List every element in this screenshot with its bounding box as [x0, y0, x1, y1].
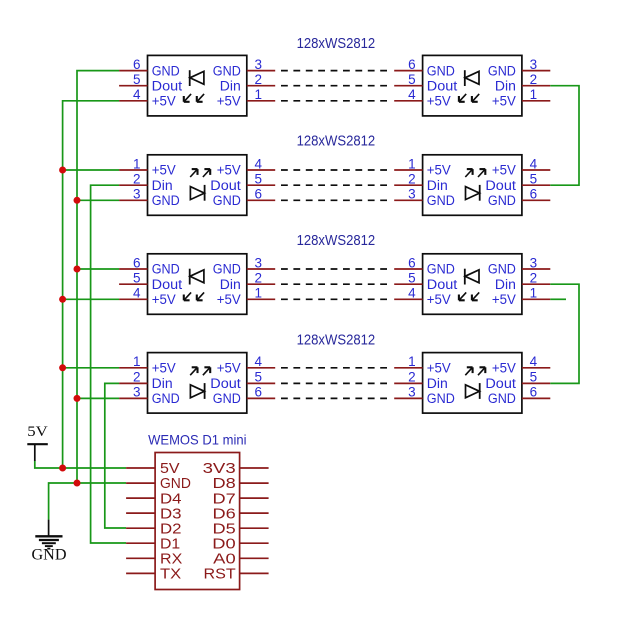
wire U2 Din to U4 Dout loop: [550, 86, 579, 186]
U5 pin 6 (GND) left: [119, 255, 180, 276]
svg-text:3V3: 3V3: [203, 461, 236, 477]
U7 pin 1 (+5V) left: [119, 354, 176, 375]
svg-text:RST: RST: [204, 567, 236, 583]
dashed wire row2 line2: [281, 184, 393, 186]
svg-text:Din: Din: [427, 376, 448, 391]
U9 pin D1 left: [126, 537, 180, 553]
svg-text:1: 1: [133, 354, 141, 369]
U9 pin RX left: [126, 552, 183, 568]
svg-text:GND: GND: [213, 391, 241, 406]
svg-text:5: 5: [530, 172, 538, 187]
svg-text:5V: 5V: [160, 461, 180, 477]
svg-text:5: 5: [255, 370, 263, 385]
U9 pin D2 left: [126, 521, 181, 537]
U7 pin 4 (+5V) right: [217, 354, 275, 375]
junction +5V bus / U3 pin1: [59, 167, 66, 174]
LED module U1 body (128xWS2812): [148, 55, 247, 116]
svg-text:GND: GND: [427, 193, 455, 208]
svg-text:2: 2: [408, 172, 416, 187]
svg-text:4: 4: [133, 286, 141, 301]
svg-text:GND: GND: [32, 547, 67, 564]
U3 pin 1 (+5V) left: [119, 156, 176, 177]
junction +5V bus / U7 pin1: [59, 364, 66, 371]
ground symbol GND: [32, 520, 67, 564]
svg-text:+5V: +5V: [427, 361, 451, 376]
U1 pin 2 (Din) right: [220, 72, 275, 93]
U2 LED symbol: [459, 70, 479, 102]
junction GND bus / U3 pin3: [74, 197, 81, 204]
U9 pin D0 right: [212, 537, 268, 553]
U8 pin 6 (GND) right: [488, 385, 550, 406]
svg-text:RX: RX: [160, 552, 183, 568]
U4 pin 2 (Din) left: [394, 172, 448, 193]
svg-text:Dout: Dout: [152, 277, 183, 292]
junction +5V bus / WEMOS 5V: [59, 465, 66, 472]
svg-text:3: 3: [255, 57, 263, 72]
U6 pin 1 (+5V) right: [492, 286, 550, 307]
U7 LED symbol: [190, 367, 210, 399]
U6 pin 4 (+5V) left: [394, 286, 451, 307]
U2 pin 3 (GND) right: [488, 57, 550, 78]
wire D1 net (WEMOS D1 to U3 Din): [91, 185, 127, 543]
U4 pin 4 (+5V) right: [492, 156, 550, 177]
svg-text:2: 2: [255, 72, 263, 87]
svg-text:A0: A0: [213, 552, 236, 568]
U4 pin 3 (GND) left: [394, 187, 455, 208]
svg-text:3: 3: [408, 187, 416, 202]
WEMOS D1 mini U9 body: [155, 453, 240, 590]
svg-text:Din: Din: [427, 178, 448, 193]
svg-text:Dout: Dout: [427, 277, 458, 292]
svg-text:3: 3: [530, 57, 538, 72]
svg-text:6: 6: [133, 57, 141, 72]
U7 pin 3 (GND) left: [119, 385, 180, 406]
svg-text:GND: GND: [488, 63, 516, 78]
svg-text:GND: GND: [488, 391, 516, 406]
U5 pin 1 (+5V) right: [217, 286, 275, 307]
svg-text:5: 5: [408, 271, 416, 286]
U9 pin D3 left: [126, 506, 181, 522]
U1 LED symbol: [184, 70, 204, 102]
dashed wire row4 line1: [281, 367, 393, 369]
svg-text:Dout: Dout: [152, 78, 183, 93]
U3 LED symbol: [190, 169, 210, 201]
svg-text:GND: GND: [160, 476, 191, 492]
U3 pin 3 (GND) left: [119, 187, 180, 208]
U8 pin 5 (Dout) right: [485, 370, 550, 391]
junction GND bus / U5 pin6: [74, 266, 81, 273]
power flag 5V: [27, 424, 48, 461]
svg-text:D3: D3: [160, 506, 182, 522]
svg-text:GND: GND: [488, 193, 516, 208]
dashed wire row3 line3: [281, 298, 393, 300]
svg-text:Dout: Dout: [427, 78, 458, 93]
svg-text:Dout: Dout: [485, 178, 516, 193]
U7 pin 2 (Din) left: [119, 370, 173, 391]
svg-text:4: 4: [408, 87, 416, 102]
U5 LED symbol: [184, 269, 204, 301]
svg-text:128xWS2812: 128xWS2812: [297, 333, 376, 349]
svg-text:6: 6: [530, 385, 538, 400]
dashed wire row3 line2: [281, 283, 393, 285]
LED module U4 body (128xWS2812): [423, 155, 522, 216]
dashed wire row3 line1: [281, 268, 393, 270]
svg-text:3: 3: [255, 255, 263, 270]
junction GND bus / WEMOS GND: [74, 480, 81, 487]
svg-text:D5: D5: [213, 521, 236, 537]
svg-text:1: 1: [530, 286, 538, 301]
svg-text:GND: GND: [213, 262, 241, 277]
U5 pin 3 (GND) right: [213, 255, 275, 276]
U7 pin 6 (GND) right: [213, 385, 275, 406]
svg-text:1: 1: [255, 286, 263, 301]
U2 pin 5 (Dout) left: [394, 72, 457, 93]
svg-text:4: 4: [255, 354, 263, 369]
U3 pin 6 (GND) right: [213, 187, 275, 208]
svg-text:+5V: +5V: [427, 163, 451, 178]
svg-text:D4: D4: [160, 491, 182, 507]
svg-text:5V: 5V: [27, 424, 48, 440]
junction +5V bus / U5 pin4: [59, 296, 66, 303]
svg-text:+5V: +5V: [152, 94, 176, 109]
U3 pin 5 (Dout) right: [210, 172, 275, 193]
svg-text:+5V: +5V: [492, 94, 516, 109]
dashed wire row1 line3: [281, 100, 393, 102]
svg-text:Din: Din: [495, 277, 516, 292]
U3 pin 4 (+5V) right: [217, 156, 275, 177]
svg-text:1: 1: [255, 87, 263, 102]
U9 pin D6 right: [213, 506, 269, 522]
dashed wire row4 line3: [281, 397, 393, 399]
svg-text:5: 5: [133, 271, 141, 286]
U1 pin 3 (GND) right: [213, 57, 275, 78]
wire GND bus vertical: [77, 71, 119, 483]
svg-text:Dout: Dout: [210, 376, 241, 391]
svg-text:Dout: Dout: [210, 178, 241, 193]
svg-text:+5V: +5V: [152, 163, 176, 178]
svg-text:5: 5: [255, 172, 263, 187]
svg-text:2: 2: [530, 271, 538, 286]
svg-text:+5V: +5V: [492, 361, 516, 376]
svg-text:3: 3: [530, 255, 538, 270]
svg-text:4: 4: [530, 156, 538, 171]
svg-text:5: 5: [530, 370, 538, 385]
U8 pin 2 (Din) left: [394, 370, 448, 391]
svg-text:2: 2: [530, 72, 538, 87]
svg-text:+5V: +5V: [492, 292, 516, 307]
svg-text:+5V: +5V: [427, 292, 451, 307]
U2 pin 2 (Din) right: [495, 72, 550, 93]
dashed wire row1 line1: [281, 70, 393, 72]
svg-text:4: 4: [133, 87, 141, 102]
LED module U3 body (128xWS2812): [148, 155, 247, 216]
svg-text:WEMOS D1 mini: WEMOS D1 mini: [148, 432, 246, 448]
svg-text:6: 6: [255, 385, 263, 400]
U8 LED symbol: [465, 367, 485, 399]
svg-text:+5V: +5V: [217, 94, 241, 109]
svg-text:GND: GND: [427, 391, 455, 406]
U4 LED symbol: [465, 169, 485, 201]
U4 pin 6 (GND) right: [488, 187, 550, 208]
svg-text:3: 3: [133, 385, 141, 400]
svg-text:2: 2: [255, 271, 263, 286]
wire U6 Din to U8 Dout loop: [550, 284, 579, 383]
U6 pin 5 (Dout) left: [394, 271, 457, 292]
svg-text:3: 3: [133, 187, 141, 202]
svg-text:1: 1: [408, 156, 416, 171]
svg-text:4: 4: [255, 156, 263, 171]
dashed wire row4 line2: [281, 382, 393, 384]
svg-text:1: 1: [133, 156, 141, 171]
U9 pin 5V left: [126, 461, 180, 477]
junction GND bus / U7 pin3: [74, 395, 81, 402]
LED module U5 body (128xWS2812): [148, 254, 247, 314]
wire stub U6 pin1 +5V: [550, 298, 566, 300]
U5 pin 5 (Dout) left: [119, 271, 182, 292]
U4 pin 5 (Dout) right: [485, 172, 550, 193]
svg-text:128xWS2812: 128xWS2812: [297, 233, 376, 249]
svg-text:4: 4: [530, 354, 538, 369]
U1 pin 1 (+5V) right: [217, 87, 275, 108]
U9 pin D7 right: [213, 491, 269, 507]
svg-text:+5V: +5V: [427, 94, 451, 109]
svg-text:GND: GND: [427, 262, 455, 277]
svg-text:Din: Din: [495, 78, 516, 93]
U2 pin 1 (+5V) right: [492, 87, 550, 108]
U5 pin 2 (Din) right: [220, 271, 275, 292]
U9 pin D8 right: [213, 476, 269, 492]
U9 pin D5 right: [213, 521, 269, 537]
U6 pin 6 (GND) left: [394, 255, 455, 276]
wire D2 net (WEMOS D2 to U7 Din): [105, 383, 126, 528]
U8 pin 1 (+5V) left: [394, 354, 451, 375]
svg-text:+5V: +5V: [217, 163, 241, 178]
svg-text:6: 6: [408, 255, 416, 270]
svg-text:+5V: +5V: [152, 292, 176, 307]
svg-text:GND: GND: [152, 193, 180, 208]
U2 pin 6 (GND) left: [394, 57, 455, 78]
svg-text:6: 6: [530, 187, 538, 202]
U9 pin TX left: [126, 567, 181, 583]
svg-text:2: 2: [133, 172, 141, 187]
svg-text:2: 2: [408, 370, 416, 385]
svg-text:Dout: Dout: [485, 376, 516, 391]
wire U5 pin6 GND tap: [77, 268, 119, 270]
svg-text:Din: Din: [152, 178, 173, 193]
svg-text:GND: GND: [213, 63, 241, 78]
svg-text:TX: TX: [160, 567, 182, 583]
U8 pin 3 (GND) left: [394, 385, 455, 406]
svg-text:Din: Din: [220, 78, 241, 93]
svg-text:+5V: +5V: [217, 361, 241, 376]
svg-text:5: 5: [133, 72, 141, 87]
U6 pin 2 (Din) right: [495, 271, 550, 292]
LED module U8 body (128xWS2812): [423, 353, 522, 414]
svg-text:+5V: +5V: [217, 292, 241, 307]
svg-text:3: 3: [408, 385, 416, 400]
svg-text:D1: D1: [160, 537, 180, 553]
svg-text:GND: GND: [427, 63, 455, 78]
U5 pin 4 (+5V) left: [119, 286, 176, 307]
wire GND feed horizontal: [49, 483, 127, 520]
wire U3 pin1 +5V tap: [63, 169, 120, 171]
U1 pin 4 (+5V) left: [119, 87, 176, 108]
svg-text:GND: GND: [152, 262, 180, 277]
U7 pin 5 (Dout) right: [210, 370, 275, 391]
svg-text:1: 1: [530, 87, 538, 102]
svg-text:5: 5: [408, 72, 416, 87]
U6 pin 3 (GND) right: [488, 255, 550, 276]
LED module U6 body (128xWS2812): [423, 254, 522, 314]
svg-text:2: 2: [133, 370, 141, 385]
wire U7 pin3 GND tap: [77, 397, 119, 399]
svg-text:D6: D6: [213, 506, 236, 522]
U9 pin D4 left: [126, 491, 181, 507]
svg-text:GND: GND: [152, 391, 180, 406]
svg-text:6: 6: [255, 187, 263, 202]
svg-text:+5V: +5V: [492, 163, 516, 178]
wire +5V bus vertical: [63, 101, 120, 468]
svg-text:6: 6: [133, 255, 141, 270]
svg-text:Din: Din: [152, 376, 173, 391]
svg-text:D8: D8: [213, 476, 236, 492]
LED module U2 body (128xWS2812): [423, 55, 522, 116]
svg-text:+5V: +5V: [152, 361, 176, 376]
wire 5V feed horizontal: [35, 461, 126, 469]
wire U5 pin4 +5V tap: [63, 298, 120, 300]
svg-text:D7: D7: [213, 491, 236, 507]
svg-text:GND: GND: [213, 193, 241, 208]
dashed wire row2 line3: [281, 199, 393, 201]
U9 pin A0 right: [213, 552, 268, 568]
svg-text:GND: GND: [152, 63, 180, 78]
U9 pin RST right: [204, 567, 269, 583]
svg-text:D2: D2: [160, 521, 182, 537]
dashed wire row2 line1: [281, 169, 393, 171]
U1 pin 5 (Dout) left: [119, 72, 182, 93]
U3 pin 2 (Din) left: [119, 172, 173, 193]
svg-text:D0: D0: [212, 537, 235, 553]
wire U7 pin1 +5V tap: [63, 367, 120, 369]
svg-text:4: 4: [408, 286, 416, 301]
svg-text:1: 1: [408, 354, 416, 369]
U2 pin 4 (+5V) left: [394, 87, 451, 108]
dashed wire row1 line2: [281, 85, 393, 87]
U1 pin 6 (GND) left: [119, 57, 180, 78]
U9 pin GND left: [126, 476, 191, 492]
svg-text:128xWS2812: 128xWS2812: [297, 133, 376, 149]
svg-text:6: 6: [408, 57, 416, 72]
U8 pin 4 (+5V) right: [492, 354, 550, 375]
U4 pin 1 (+5V) left: [394, 156, 451, 177]
svg-text:128xWS2812: 128xWS2812: [297, 36, 376, 52]
wire U3 pin3 GND tap: [77, 199, 119, 201]
U6 LED symbol: [459, 269, 479, 301]
svg-text:GND: GND: [488, 262, 516, 277]
LED module U7 body (128xWS2812): [148, 353, 247, 414]
svg-text:Din: Din: [220, 277, 241, 292]
U9 pin 3V3 right: [203, 461, 269, 477]
